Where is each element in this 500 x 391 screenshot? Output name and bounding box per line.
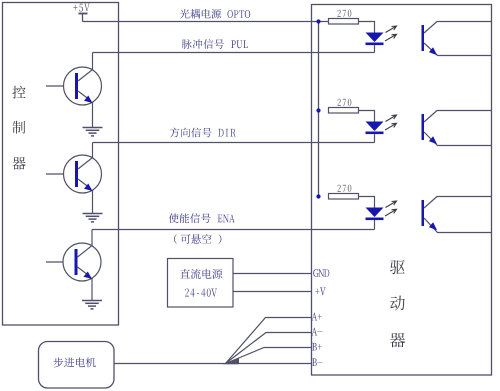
label 动 driver char2 — [390, 296, 405, 311]
wire LED D1 cathode down — [374, 45, 376, 52]
label 直流电源 — [180, 269, 222, 279]
transistor Q2 emitter arrowhead — [84, 184, 93, 192]
transistor Q3 body — [63, 243, 101, 281]
wire GND supply — [233, 273, 312, 275]
transistor Q3 emitter arrowhead — [84, 272, 93, 280]
transistor Q3 collector — [78, 230, 93, 258]
label B- terminal — [312, 358, 323, 366]
wire +V supply — [233, 291, 312, 293]
label 步进电机 — [53, 357, 96, 367]
transistor Q2 collector — [78, 143, 93, 170]
label 驱 driver char1 — [390, 260, 405, 274]
bus wire +5V vertical — [318, 22, 320, 197]
label （可悬空） part2 chars — [181, 234, 212, 244]
LED D3 triangle — [366, 208, 384, 218]
wire PUL signal — [93, 52, 375, 54]
label 光耦电源 OPTO — [180, 9, 250, 19]
phototransistor U3 emitter arrowhead — [429, 222, 437, 230]
label （可悬空） part1 paren — [174, 234, 177, 244]
label 使能信号 ENA — [169, 213, 235, 223]
ground symbol Q2 — [83, 214, 103, 222]
resistor R1 270 body — [329, 19, 359, 25]
label 方向信号 DIR — [170, 128, 236, 138]
label 270 of R2 — [338, 99, 352, 106]
label +5V — [73, 4, 90, 12]
wire OPTO +5V rail — [83, 21, 329, 23]
optocoupler U2 light arrows — [385, 115, 397, 130]
label 脉冲信号 PUL — [182, 39, 248, 49]
transistor Q2 body — [64, 155, 102, 193]
label 24-40V — [185, 289, 217, 297]
label +V terminal — [315, 287, 325, 295]
transistor Q1 collector — [78, 53, 93, 82]
label 270 of R3 — [338, 185, 352, 192]
LED D2 cathode bar — [366, 132, 384, 135]
wire B+ phase — [226, 348, 312, 364]
optocoupler U3 light arrows — [385, 201, 397, 216]
LED D3 cathode bar — [366, 218, 384, 221]
LED D2 triangle — [366, 122, 384, 132]
junction dot node 3 — [316, 194, 320, 198]
wire LED D3 cathode down — [374, 220, 376, 229]
ground symbol Q3 — [82, 301, 102, 309]
driver box outline — [312, 5, 492, 376]
transistor Q3 emitter — [78, 267, 93, 301]
wire resistor R1 to LED — [359, 22, 375, 33]
transistor Q2 base lead wire — [46, 173, 64, 175]
wire resistor R3 to LED — [359, 197, 375, 208]
phototransistor U2 emitter arrowhead — [429, 136, 437, 144]
phototransistor U1 collector — [424, 22, 492, 34]
transistor Q1 base bar — [75, 73, 78, 99]
transistor Q3 base bar — [75, 249, 78, 275]
label B+ terminal — [312, 343, 322, 351]
label （可悬空） part3 paren — [219, 234, 222, 244]
phototransistor U1 emitter arrowhead — [429, 47, 437, 55]
transistor Q3 base lead wire — [46, 261, 63, 263]
label 270 of R1 — [338, 10, 352, 17]
phototransistor U2 emitter — [424, 132, 492, 146]
wire ENA signal — [92, 229, 375, 231]
controller box outline — [3, 3, 119, 326]
transistor Q1 base lead wire — [46, 85, 64, 87]
wire motor to fan node — [114, 363, 226, 365]
label 器 controller char3 — [12, 157, 25, 170]
label 制 controller char2 — [12, 121, 25, 134]
wire B- phase — [226, 363, 312, 365]
transistor Q2 base bar — [75, 161, 78, 187]
phototransistor U1 bar — [422, 25, 425, 51]
transistor Q1 emitter arrowhead — [84, 96, 93, 104]
label 器 driver char3 — [390, 333, 405, 347]
junction dot node 1 — [316, 19, 320, 23]
DC supply box outline — [168, 259, 234, 308]
phototransistor U2 collector — [424, 111, 492, 123]
resistor R3 270 body — [329, 194, 359, 200]
junction dot node 2 — [316, 108, 320, 112]
transistor Q1 body — [64, 67, 102, 105]
label 控 controller char1 — [12, 86, 25, 99]
wire A+ phase — [226, 318, 312, 364]
phototransistor U1 emitter — [424, 43, 492, 56]
label GND terminal — [313, 269, 329, 277]
+5V power symbol — [79, 14, 88, 22]
wire resistor R2 to LED — [359, 111, 375, 122]
wire DIR signal — [93, 142, 375, 144]
phototransistor U3 collector — [424, 197, 492, 209]
label A- terminal — [312, 328, 323, 336]
phototransistor U3 emitter — [424, 218, 492, 233]
fan node junction wedge — [223, 358, 240, 364]
LED D1 cathode bar — [366, 43, 384, 46]
wire A- phase — [226, 333, 312, 364]
transistor Q1 emitter — [78, 91, 93, 128]
optocoupler U1 light arrows — [385, 26, 397, 41]
LED D1 triangle — [366, 33, 384, 43]
resistor R2 270 body — [329, 108, 359, 114]
phototransistor U3 bar — [422, 200, 425, 226]
transistor Q2 emitter — [78, 179, 93, 214]
label A+ terminal — [312, 313, 322, 321]
phototransistor U2 bar — [422, 114, 425, 140]
wire LED D2 cathode down — [374, 134, 376, 142]
stepper motor box outline — [39, 342, 115, 389]
ground symbol Q1 — [83, 128, 103, 136]
